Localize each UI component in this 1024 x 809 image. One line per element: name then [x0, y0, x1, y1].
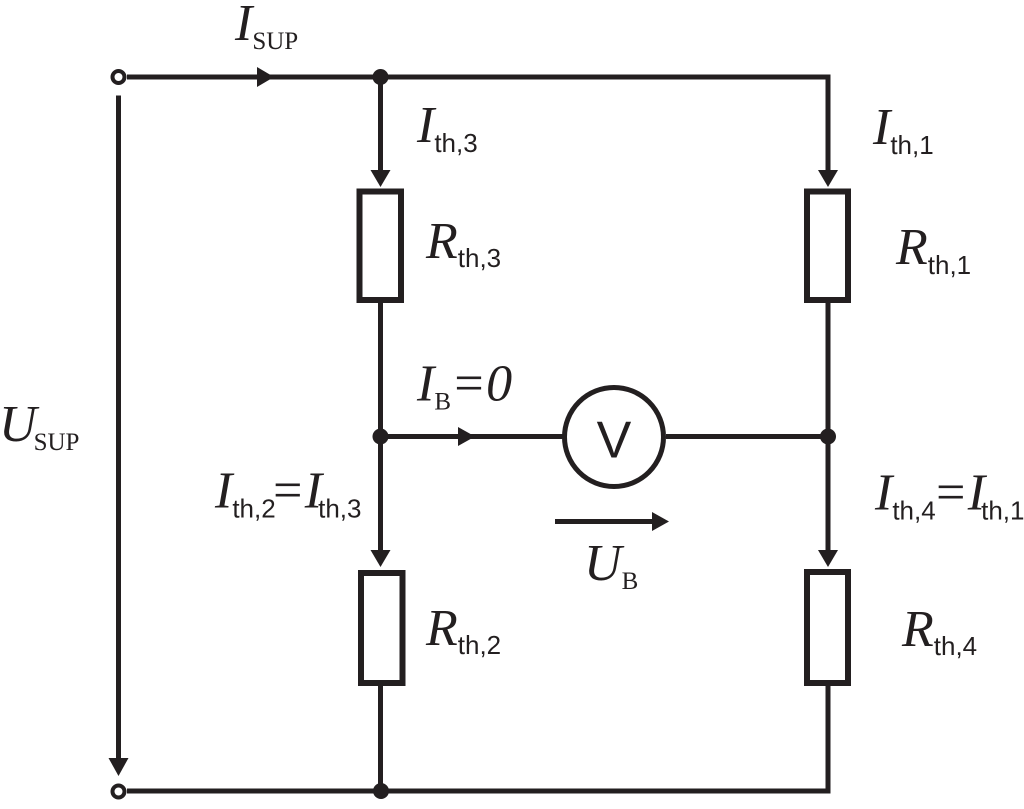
arrow U_SUP flow (down) — [109, 758, 129, 776]
svg-text:Rth,1: Rth,1 — [895, 219, 971, 280]
arrow I_SUP flow (right) — [257, 67, 274, 87]
svg-text:V: V — [597, 412, 632, 470]
svg-text:Ith,4=Ith,1: Ith,4=Ith,1 — [874, 465, 1024, 526]
svg-text:Rth,3: Rth,3 — [425, 213, 501, 273]
node bridge left — [373, 429, 389, 445]
wire Rth1 to bridge right node — [826, 303, 831, 437]
arrow I_th,3 flow (down) — [371, 170, 391, 187]
arrow U_B line — [555, 519, 652, 524]
node bridge bottom junction — [373, 783, 389, 799]
node bridge right — [820, 429, 836, 445]
wire bridge left node to resistor Rth2 — [378, 437, 383, 552]
resistor R_th,1 — [807, 192, 848, 301]
svg-text:USUP: USUP — [0, 396, 79, 456]
wire left: supply column — [116, 96, 121, 760]
wire top junction to resistor Rth3 — [378, 77, 383, 171]
svg-text:Ith,2=Ith,3: Ith,2=Ith,3 — [214, 463, 361, 524]
resistor R_th,4 — [807, 572, 848, 683]
svg-text:ISUP: ISUP — [234, 0, 298, 55]
svg-text:Rth,2: Rth,2 — [425, 600, 501, 660]
voltmeter U1 — [565, 388, 664, 487]
wire Rth2 to bottom junction — [378, 685, 383, 791]
svg-text:UB: UB — [584, 535, 638, 595]
svg-text:Ith,1: Ith,1 — [872, 99, 934, 160]
resistor R_th,2 — [361, 573, 403, 683]
arrow U_B head (right) — [652, 512, 669, 531]
wire bridge right node to resistor Rth4 — [826, 437, 831, 552]
wire Rth3 to bridge left node — [378, 303, 383, 437]
svg-text:Ith,3: Ith,3 — [416, 97, 478, 158]
node bridge top junction — [373, 69, 389, 85]
wire top right corner down to Rth1 — [826, 75, 831, 172]
wire voltmeter to bridge right node — [666, 434, 828, 439]
svg-text:Rth,4: Rth,4 — [901, 601, 977, 661]
arrow I_B flow (right) — [458, 427, 475, 446]
arrow I_th,4 flow (down) — [818, 550, 838, 567]
wire top: supply to bridge top — [127, 75, 829, 80]
arrow I_th,1 flow (down) — [818, 170, 838, 187]
wire bottom: return — [127, 789, 831, 794]
wire Rth4 to bottom right corner — [826, 685, 831, 791]
terminal bottom-left supply (-) — [113, 786, 125, 798]
svg-text:IB=0: IB=0 — [416, 356, 512, 416]
wire bridge left node to voltmeter — [381, 434, 565, 439]
resistor R_th,3 — [360, 192, 402, 301]
terminal top-left supply (+) — [113, 71, 125, 83]
arrow I_th,2 flow (down) — [371, 550, 391, 567]
